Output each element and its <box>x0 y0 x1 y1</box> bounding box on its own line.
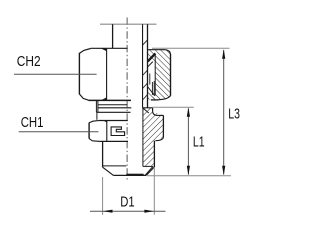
bottom extension baseline <box>147 175 231 177</box>
stud bottom face <box>113 174 146 176</box>
stud right chamfer <box>146 167 154 175</box>
body shoulder line <box>98 107 131 109</box>
ferrule body left line <box>151 82 153 95</box>
centerline <box>126 18 128 182</box>
CH1 leader line <box>19 131 99 133</box>
L3 arrow down <box>222 166 225 176</box>
ferrule bottom edge <box>148 87 155 96</box>
D1 arrow left <box>103 210 113 213</box>
nut bottom chamfer wedge <box>101 97 107 100</box>
nut top face right (section) <box>148 49 166 51</box>
washer bottom line <box>96 111 130 113</box>
nut U1 left outside view: left edge <box>78 53 80 95</box>
nut thread bore wall <box>154 54 156 96</box>
D1 extension line left <box>102 177 104 215</box>
body shoulder right edge <box>152 108 154 112</box>
hex CH1 left edge <box>88 123 90 139</box>
hex CH1 bottom-left chamfer <box>89 139 100 142</box>
nut bottom-right corner <box>158 96 170 100</box>
nut hex facet line <box>106 49 108 100</box>
svg-text:L1: L1 <box>193 134 205 151</box>
tube break line (top) <box>100 23 157 25</box>
nut top-right chamfer <box>165 50 170 55</box>
bore chamfer top <box>143 108 149 113</box>
stud left chamfer <box>103 167 114 175</box>
nut section hatch <box>148 50 171 100</box>
body shoulder line right <box>143 107 153 109</box>
tube inner wall right (section) <box>142 24 144 108</box>
hex CH1 bottom face <box>101 140 129 142</box>
nut bottom face left <box>89 99 132 101</box>
ferrule top cone band <box>148 53 156 61</box>
hex CH1 top-left chamfer <box>89 121 98 123</box>
svg-text:CH2: CH2 <box>17 53 41 70</box>
ferrule body right line <box>153 81 155 96</box>
nut right edge (section) <box>170 54 172 96</box>
L3 top extension line <box>152 47 230 49</box>
body neck thread left outer <box>95 100 97 112</box>
bore cone top edge <box>143 165 153 167</box>
svg-text:D1: D1 <box>120 193 134 210</box>
tube outer wall right (section) <box>147 24 149 108</box>
hex CH1 bottom step <box>155 138 163 141</box>
hex CH1 right edge (section) <box>162 115 164 137</box>
ferrule top lower edge <box>148 62 153 67</box>
ferrule bottom hatch <box>148 87 155 100</box>
body neck thread left inner <box>97 100 99 112</box>
D1 dimension line <box>90 210 166 212</box>
stud section hatch below cone <box>145 166 154 175</box>
stud thread root line <box>103 165 127 167</box>
bore cone edge <box>145 166 153 175</box>
hex CH1 facet line <box>106 121 108 142</box>
tube wall hatch <box>143 40 148 45</box>
stamp spiral glyph <box>111 127 125 136</box>
L3 dimension line <box>223 50 225 175</box>
hex CH1 top chamfer wedge <box>103 121 107 123</box>
svg-text:L3: L3 <box>228 106 240 123</box>
body step chamfer <box>153 112 164 116</box>
nut top face left <box>91 47 128 49</box>
svg-text:CH1: CH1 <box>21 114 44 131</box>
body section hatch right <box>143 108 164 167</box>
nut top chamfer wedge <box>101 48 107 51</box>
thread runout line <box>98 104 128 106</box>
L1 dimension line <box>187 109 189 175</box>
ferrule inner edge line <box>149 74 151 85</box>
nut top-left chamfer <box>79 49 90 54</box>
tube outer wall left <box>112 24 114 48</box>
L1 arrow down <box>187 166 190 176</box>
L1 top extension line <box>153 106 194 108</box>
L3 arrow up <box>222 49 225 59</box>
D1 extension line right <box>153 167 155 215</box>
stud right edge (section) <box>153 141 155 167</box>
body neck left edge lower <box>96 112 98 120</box>
nut bottom face right <box>151 99 159 101</box>
CH2 leader line <box>14 73 97 75</box>
L1 arrow up <box>187 107 190 117</box>
hex CH1 top face <box>98 120 128 122</box>
D1 arrow right <box>144 210 154 213</box>
stud bottom thick edge <box>126 174 143 176</box>
bore wall (section) <box>142 108 144 167</box>
stud left edge <box>102 141 104 167</box>
nut bottom-left chamfer <box>79 94 88 100</box>
